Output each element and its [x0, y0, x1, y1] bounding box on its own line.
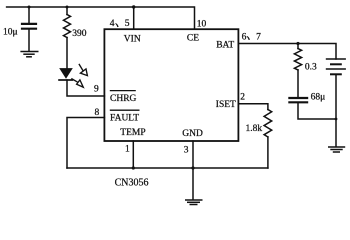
svg-text:390: 390	[72, 29, 87, 39]
svg-text:2: 2	[240, 93, 245, 103]
svg-text:FAULT: FAULT	[110, 113, 139, 123]
svg-text:CN3056: CN3056	[115, 177, 149, 188]
svg-text:7: 7	[256, 33, 261, 43]
svg-text:TEMP: TEMP	[120, 128, 145, 138]
svg-text:1.8k: 1.8k	[246, 124, 263, 134]
svg-text:VIN: VIN	[124, 35, 141, 45]
svg-text:8: 8	[95, 108, 100, 118]
svg-text:ISET: ISET	[216, 100, 236, 110]
svg-text:9: 9	[94, 85, 99, 95]
svg-text:CHRG: CHRG	[110, 94, 137, 104]
svg-text:3: 3	[184, 145, 189, 155]
svg-text:10μ: 10μ	[3, 28, 18, 38]
svg-text:6: 6	[242, 33, 247, 43]
svg-text:CE: CE	[187, 33, 199, 43]
svg-text:GND: GND	[182, 129, 203, 139]
svg-text:68μ: 68μ	[311, 92, 326, 102]
svg-text:0.3: 0.3	[305, 62, 317, 72]
svg-text:4: 4	[110, 19, 115, 29]
svg-text:BAT: BAT	[216, 40, 234, 50]
svg-text:10: 10	[197, 19, 207, 29]
svg-text:5: 5	[125, 19, 130, 29]
svg-text:1: 1	[125, 145, 130, 155]
